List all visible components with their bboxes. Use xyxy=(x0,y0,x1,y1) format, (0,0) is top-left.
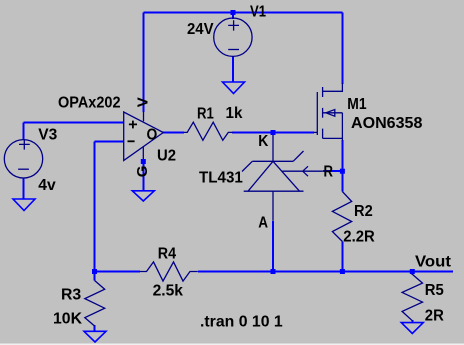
svg-text:R4: R4 xyxy=(158,245,176,262)
wire R5 bottom stub xyxy=(411,320,413,323)
wire V3 bottom to ground xyxy=(23,178,25,199)
svg-text:Vout: Vout xyxy=(415,254,452,271)
op-amp minus marker xyxy=(128,140,135,142)
svg-text:V3: V3 xyxy=(38,127,57,144)
wire bottom rail left of R4 xyxy=(95,271,141,273)
svg-text:10K: 10K xyxy=(53,311,82,328)
ground under R5 xyxy=(401,323,423,334)
wire feedback vertical from opamp minus xyxy=(94,141,96,271)
ground under R3 xyxy=(84,331,106,342)
svg-text:.tran 0 10 1: .tran 0 10 1 xyxy=(200,314,283,331)
svg-text:A: A xyxy=(258,214,268,231)
TL431 U3 body xyxy=(242,133,323,221)
wire opamp V+ supply drop xyxy=(143,13,145,113)
wire V1 top lead xyxy=(232,13,234,20)
bottom window edge strip xyxy=(0,343,464,344)
wire V3 top lead xyxy=(23,123,25,140)
resistor R4 xyxy=(140,262,198,281)
svg-text:TL431: TL431 xyxy=(199,169,243,186)
resistor R3 xyxy=(85,281,105,327)
op-amp plus marker xyxy=(129,121,137,129)
voltage source V1 body xyxy=(214,18,252,56)
wire R3 top stub xyxy=(94,272,96,281)
wire opamp minus input xyxy=(95,140,124,142)
wire TL431 ref to node R xyxy=(323,170,343,172)
svg-text:O: O xyxy=(147,127,158,144)
wire opamp output to R1 xyxy=(163,131,184,133)
junction node V1 top xyxy=(231,10,236,15)
svg-text:R1: R1 xyxy=(197,106,214,123)
junction node R2 bottom xyxy=(340,269,345,274)
junction node A bottom xyxy=(271,269,276,274)
svg-text:R5: R5 xyxy=(425,282,444,299)
wire top rail from opamp V+ to mosfet drain xyxy=(144,12,343,14)
svg-text:2.5k: 2.5k xyxy=(153,283,183,300)
wire drain drop xyxy=(341,13,343,85)
junction node R xyxy=(340,169,345,174)
wire V1 bottom to ground xyxy=(232,56,234,82)
svg-text:4v: 4v xyxy=(38,177,55,194)
wire V3 to opamp plus input xyxy=(24,122,124,124)
svg-text:G: G xyxy=(134,166,151,178)
ground under opamp xyxy=(132,191,154,201)
svg-text:M1: M1 xyxy=(347,96,366,113)
svg-text:AON6358: AON6358 xyxy=(351,115,422,132)
junction node opamp gnd pin xyxy=(141,159,146,164)
ground under V3 xyxy=(13,199,35,211)
voltage source V3 body xyxy=(4,140,42,178)
svg-text:2.2R: 2.2R xyxy=(343,228,375,245)
wire mosfet source down through node R to R2 xyxy=(341,140,343,192)
wire R5 top stub xyxy=(411,272,413,276)
svg-text:R3: R3 xyxy=(61,287,81,304)
svg-text:V: V xyxy=(135,97,152,107)
wire opamp gnd pin to ground xyxy=(142,161,144,191)
svg-text:V1: V1 xyxy=(250,4,266,21)
svg-text:U2: U2 xyxy=(157,147,176,164)
junction node bottom-left xyxy=(92,269,97,274)
ground under V1 xyxy=(223,82,245,94)
wire R2 bottom to output rail xyxy=(341,242,343,272)
svg-text:K: K xyxy=(258,133,268,150)
mosfet M1 body xyxy=(314,83,343,141)
resistor R2 xyxy=(332,192,351,242)
svg-text:1k: 1k xyxy=(226,105,243,122)
svg-text:2R: 2R xyxy=(425,308,444,325)
resistor R5 xyxy=(402,274,422,320)
wire TL431 anode down to rail xyxy=(272,221,274,272)
junction node K xyxy=(271,130,276,135)
wire R1 to mosfet gate, node K xyxy=(232,131,314,133)
svg-text:24V: 24V xyxy=(187,21,214,38)
resistor R1 xyxy=(184,122,233,140)
wire bottom rail right of R4 to Vout end xyxy=(198,271,453,273)
svg-text:R2: R2 xyxy=(354,203,373,220)
svg-text:OPAx202: OPAx202 xyxy=(58,95,121,112)
junction node Vout xyxy=(410,269,415,274)
svg-text:R: R xyxy=(324,164,334,181)
op-amp U2 triangle xyxy=(124,112,164,161)
wire R3 bottom stub xyxy=(94,325,96,331)
